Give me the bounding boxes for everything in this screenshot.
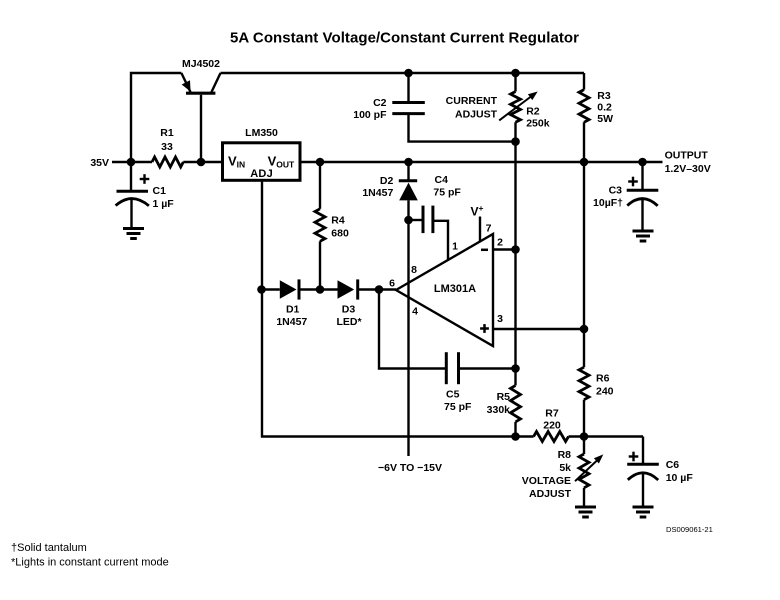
capacitor C3 plus sign — [628, 180, 638, 182]
wire: bottom rail right of R7 — [569, 435, 644, 437]
svg-text:R6: R6 — [596, 373, 610, 385]
node output rail / D2 — [404, 158, 413, 167]
capacitor C1 — [117, 190, 149, 193]
svg-text:R7: R7 — [545, 408, 559, 420]
svg-text:OUTPUT: OUTPUT — [665, 150, 709, 162]
svg-text:LED*: LED* — [336, 316, 362, 328]
wire: R1 to LM350 — [183, 161, 223, 163]
node Vout/R4 — [316, 158, 325, 167]
node top rail / R2 — [511, 69, 520, 78]
svg-text:R4: R4 — [331, 215, 345, 227]
svg-text:R1: R1 — [160, 127, 174, 139]
wire: ADJ feedback row — [262, 288, 280, 290]
svg-text:ADJUST: ADJUST — [529, 488, 572, 500]
svg-text:LM350: LM350 — [245, 127, 278, 139]
resistor R1 — [152, 157, 183, 167]
wire: 35V input lead — [112, 161, 152, 163]
svg-text:5W: 5W — [597, 113, 613, 125]
svg-text:C3: C3 — [609, 185, 623, 197]
node output rail / R3 — [580, 158, 589, 167]
svg-text:250k: 250k — [526, 118, 550, 130]
resistor R3 0.2 5W — [583, 73, 585, 90]
node top rail / C2 — [404, 69, 413, 78]
svg-text:1N457: 1N457 — [362, 187, 393, 199]
svg-text:6: 6 — [389, 278, 395, 290]
regulator LM350 box — [223, 143, 301, 181]
svg-text:C1: C1 — [153, 185, 167, 197]
node pin2 — [511, 245, 520, 254]
ground below R8 — [575, 506, 596, 509]
resistor R5 330k — [511, 385, 521, 422]
node pin3/R6 — [580, 325, 589, 334]
node C5/R5 — [511, 364, 520, 373]
svg-text:D3: D3 — [342, 304, 356, 316]
capacitor C5 75pF — [445, 352, 448, 384]
svg-text:35V: 35V — [90, 157, 109, 169]
svg-text:DS009061-21: DS009061-21 — [666, 525, 713, 534]
transistor MJ4502 base lead — [200, 95, 202, 162]
capacitor C3 — [641, 162, 643, 190]
svg-text:CURRENT: CURRENT — [446, 95, 498, 107]
node R4/diode row — [316, 285, 325, 294]
svg-text:33: 33 — [161, 141, 173, 153]
svg-text:7: 7 — [486, 223, 492, 235]
wire: pin6 node down to C5 — [379, 290, 446, 369]
svg-text:10µF†: 10µF† — [593, 197, 623, 209]
node pin6 / C5 branch — [375, 285, 384, 294]
svg-text:R8: R8 — [558, 449, 572, 461]
wire D2 to node — [407, 200, 409, 220]
diode D2 1N457 — [407, 162, 409, 181]
wire D3 to op-amp pin 6 — [358, 288, 396, 290]
capacitor C1 plus sign — [140, 178, 150, 180]
ground below C3 — [633, 230, 654, 233]
svg-text:1 µF: 1 µF — [153, 198, 175, 210]
wire: pin 2 to R2 wiper line — [493, 248, 516, 250]
resistor R6 240 — [579, 367, 589, 400]
svg-text:−6V TO −15V: −6V TO −15V — [378, 462, 442, 474]
svg-text:8: 8 — [411, 264, 417, 276]
svg-text:10 µF: 10 µF — [666, 472, 694, 484]
capacitor C6 — [642, 437, 644, 465]
svg-text:VOLTAGE: VOLTAGE — [522, 475, 571, 487]
transistor MJ4502 emitter with arrow — [181, 73, 190, 92]
svg-text:C2: C2 — [373, 97, 387, 109]
capacitor C6 plus sign — [629, 455, 639, 457]
wire D1 to D3 — [299, 288, 338, 290]
op-amp LM301A — [396, 234, 493, 346]
svg-text:LM301A: LM301A — [434, 283, 476, 295]
diode D1 1N457 — [280, 280, 297, 299]
node base/R1/Vin — [197, 158, 206, 167]
svg-text:220: 220 — [543, 420, 561, 432]
svg-text:ADJUST: ADJUST — [455, 109, 498, 121]
capacitor C4 75pF — [422, 206, 425, 234]
op-amp minus input symbol — [481, 249, 488, 252]
svg-text:0.2: 0.2 — [597, 102, 612, 114]
node C2 / R2 bottom — [511, 137, 520, 146]
svg-text:C4: C4 — [435, 174, 449, 186]
svg-text:R5: R5 — [497, 391, 511, 403]
resistor R4 680 — [319, 162, 321, 209]
resistor R7 220 — [534, 432, 569, 442]
wire: top rail collector to R3 — [221, 72, 585, 74]
capacitor C2 — [407, 73, 409, 102]
svg-text:2: 2 — [497, 237, 503, 249]
op-amp plus input symbol — [480, 327, 489, 330]
svg-text:C6: C6 — [666, 459, 680, 471]
transistor MJ4502 collector — [212, 73, 221, 92]
svg-text:D1: D1 — [286, 304, 300, 316]
svg-text:1.2V–30V: 1.2V–30V — [665, 163, 711, 175]
svg-text:4: 4 — [412, 306, 418, 318]
wire: pin 3 to R6 top — [493, 328, 584, 330]
svg-text:R3: R3 — [597, 90, 611, 102]
svg-text:ADJ: ADJ — [250, 168, 273, 180]
svg-text:MJ4502: MJ4502 — [182, 58, 220, 70]
svg-text:5k: 5k — [559, 462, 571, 474]
svg-text:5A Constant Voltage/Constant C: 5A Constant Voltage/Constant Current Reg… — [230, 30, 579, 47]
ground below C1 — [123, 227, 144, 230]
wire: -6V supply line through op-amp (pins 8,4) — [407, 220, 409, 456]
svg-text:100 pF: 100 pF — [353, 109, 387, 121]
svg-text:R2: R2 — [526, 106, 540, 118]
wire: output rail Vout to OUTPUT — [300, 161, 662, 163]
ground below C6 — [633, 506, 654, 509]
svg-text:C5: C5 — [446, 389, 460, 401]
node ADJ / D1 — [257, 285, 266, 294]
svg-text:D2: D2 — [380, 175, 394, 187]
svg-text:330k: 330k — [487, 404, 511, 416]
wire: ADJ pin down to bottom rail — [262, 179, 534, 436]
node D2/C4/V- line — [404, 216, 413, 225]
wire: left riser 35V node to top rail and down to C1 — [131, 73, 181, 191]
svg-text:1N457: 1N457 — [276, 316, 307, 328]
svg-text:75 pF: 75 pF — [433, 187, 461, 199]
node 35V input — [127, 158, 136, 167]
svg-text:75 pF: 75 pF — [444, 401, 472, 413]
diode D3 LED — [338, 280, 355, 299]
svg-text:*Lights in constant current mo: *Lights in constant current mode — [11, 557, 169, 569]
resistor R8 5k pot — [579, 454, 589, 488]
resistor R2 250k pot — [514, 73, 516, 92]
svg-text:680: 680 — [331, 228, 349, 240]
svg-text:†Solid tantalum: †Solid tantalum — [11, 542, 87, 554]
svg-text:1: 1 — [452, 241, 458, 253]
svg-text:240: 240 — [596, 386, 614, 398]
node output rail / C3 — [638, 158, 647, 167]
node R7/R6/R8/C6 — [580, 432, 589, 441]
svg-text:3: 3 — [497, 313, 503, 325]
transistor MJ4502 base bar — [186, 92, 215, 95]
pin 7 stub — [479, 217, 481, 242]
node R5 / bottom rail — [511, 432, 520, 441]
